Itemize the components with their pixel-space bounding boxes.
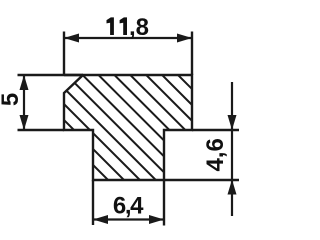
svg-text:6,4: 6,4 xyxy=(113,193,144,220)
svg-text:4,6: 4,6 xyxy=(202,138,229,171)
svg-text:,8: ,8 xyxy=(129,14,149,41)
svg-text:5: 5 xyxy=(0,93,24,106)
